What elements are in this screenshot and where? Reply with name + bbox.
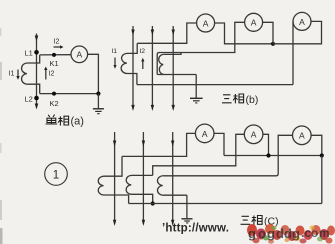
node N3 (c) (320, 153, 324, 157)
svg-text:L2: L2 (25, 94, 33, 103)
svg-text:K1: K1 (50, 59, 59, 68)
svg-text:I2: I2 (49, 70, 55, 77)
CT TA3 coil (c) (157, 176, 186, 195)
wire phase line C (b) (172, 26, 174, 108)
svg-text:’http://www.: ’http://www. (162, 223, 229, 235)
wire phase line B (b) (151, 26, 153, 108)
node L1 (34, 50, 39, 55)
arrow phase A top (b) (131, 30, 134, 36)
svg-text:A: A (299, 17, 305, 27)
ammeter A3 (b) (293, 12, 311, 30)
wire TA3.K2 to ground (c) (186, 195, 188, 218)
ammeter A2 (b) (245, 13, 263, 31)
svg-text:A: A (251, 130, 257, 140)
svg-text:(b): (b) (246, 94, 259, 106)
wire phase line A (b) (132, 26, 134, 108)
node ammeter return junction (a) (96, 92, 100, 96)
svg-text:A: A (203, 18, 209, 28)
arrow phase C bottom (b) (172, 105, 175, 111)
arrow phase C bottom (c) (171, 220, 174, 226)
svg-text:o: o (311, 226, 318, 240)
arrow I2 up (b) (142, 61, 144, 69)
wire A1 to node N (b) (215, 23, 273, 44)
svg-text:I1: I1 (9, 71, 15, 78)
node K2 (52, 92, 56, 96)
wire to ground (a) (97, 94, 99, 109)
svg-text:I2: I2 (54, 39, 60, 46)
svg-text:I2: I2 (139, 48, 145, 55)
arrow phase C top (b) (172, 30, 175, 36)
circled number 1 (45, 163, 68, 186)
ammeter A1 (c) (195, 124, 214, 143)
ground (c) (182, 219, 193, 223)
ammeter A1 (b) (197, 14, 215, 32)
arrow phase C top (c) (171, 141, 174, 147)
node N (b) (271, 42, 275, 46)
svg-text:A: A (202, 129, 208, 139)
wire TA2 coil top stub (b) (164, 53, 181, 55)
wire phase line C (c) (172, 132, 174, 224)
wire TA1.K1 to ammeter A1 (b) (137, 23, 196, 43)
arrow phase A top (c) (113, 141, 116, 147)
wire A3 left lead to TA3 (c) (164, 135, 293, 176)
svg-text:d: d (276, 226, 284, 241)
wire TA2.K2 bottom (b) (157, 74, 196, 76)
CT TA1 coil (c) (98, 156, 128, 203)
wire A3 left lead to K2 bus (b) (292, 21, 294, 84)
wire K1 to ammeter (a) (40, 54, 71, 56)
svg-text:m: m (319, 226, 330, 240)
node L2 (34, 96, 39, 101)
arrow phase A bottom (b) (131, 105, 134, 111)
CT TA2 coil (b) (159, 54, 164, 74)
arrow I2 up mid (a) (45, 70, 47, 80)
wire N bus (c) (224, 155, 322, 157)
wire A2 right lead (b) (263, 22, 273, 44)
wire primary line L (a) (36, 34, 38, 107)
arrow I1 down (a) (17, 70, 19, 77)
wire K2 bus (c) (129, 203, 322, 205)
wire K2 bus (b) (137, 84, 293, 86)
wire A2 right to N bus (c) (263, 134, 269, 155)
ammeter A2 (c) (244, 125, 263, 144)
arrow I1 down (b) (114, 58, 116, 66)
wire A3 right to N bus (c) (311, 135, 322, 155)
watermark logo (247, 224, 335, 244)
ground (b) (190, 98, 203, 103)
wire N to K2 bus link (c) (321, 156, 323, 204)
svg-text:I1: I1 (111, 48, 117, 55)
arrow phase B top (b) (151, 30, 154, 36)
arrow primary bottom end (a) (35, 104, 39, 110)
svg-text:o: o (258, 226, 266, 241)
wire ground stem (b) (195, 75, 197, 98)
svg-text:A: A (251, 18, 257, 28)
wire ammeter to ground branch (a) (88, 54, 99, 93)
caption 单相(a) (46, 115, 69, 126)
wire A2 left lead to TA2 (c) (153, 134, 245, 175)
node K1 (52, 53, 56, 57)
ammeter A3 (c) (293, 126, 312, 145)
ammeter A (a) (71, 46, 88, 63)
wire A1 to N bus (c) (214, 133, 224, 155)
CT TA1 coil (b) (121, 43, 137, 84)
scan edge smudges (0, 28, 3, 244)
wire K2 bottom (a) (40, 93, 99, 95)
CT TA secondary coil (a) (22, 55, 40, 94)
ground (a) (93, 109, 104, 114)
wire phase line B (c) (142, 132, 144, 224)
svg-text:1: 1 (53, 170, 59, 182)
arrow phase A bottom (c) (113, 220, 116, 226)
wire A2 left lead to TA2 (b) (157, 22, 244, 74)
svg-text:.c: .c (301, 226, 311, 240)
wire TA1.K1 to ammeter A1 (c) (122, 133, 195, 156)
svg-text:K2: K2 (50, 99, 59, 108)
CT TA2 coil (c) (126, 175, 153, 203)
arrow phase B bottom (b) (151, 105, 154, 111)
wire node N to A3 (b) (273, 21, 322, 43)
wire phase line A (c) (114, 132, 116, 224)
svg-text:g: g (292, 226, 300, 241)
svg-text:(a): (a) (71, 116, 84, 128)
svg-text:g: g (248, 226, 256, 241)
caption 三相(C) (241, 216, 263, 225)
node TA2.K2 on bus (c) (151, 201, 155, 205)
arrow I2 right (a) (54, 46, 61, 48)
caption 三相(b) (222, 94, 244, 103)
svg-text:g: g (267, 226, 275, 241)
node N2 (c) (266, 153, 270, 157)
svg-text:A: A (299, 131, 305, 141)
svg-text:L1: L1 (25, 49, 33, 58)
arrow I1 direction on primary top (a) (35, 36, 39, 42)
svg-text:A: A (76, 50, 82, 60)
arrow phase B bottom (c) (142, 220, 145, 226)
arrow phase B top (c) (142, 141, 145, 147)
svg-text:d: d (284, 226, 292, 241)
